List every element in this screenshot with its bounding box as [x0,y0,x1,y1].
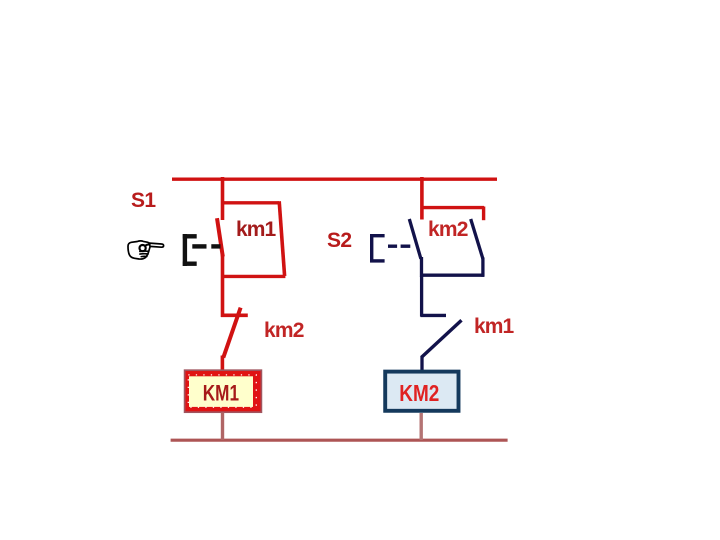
svg-text:KM2: KM2 [399,380,439,406]
svg-text:KM1: KM1 [203,380,239,405]
